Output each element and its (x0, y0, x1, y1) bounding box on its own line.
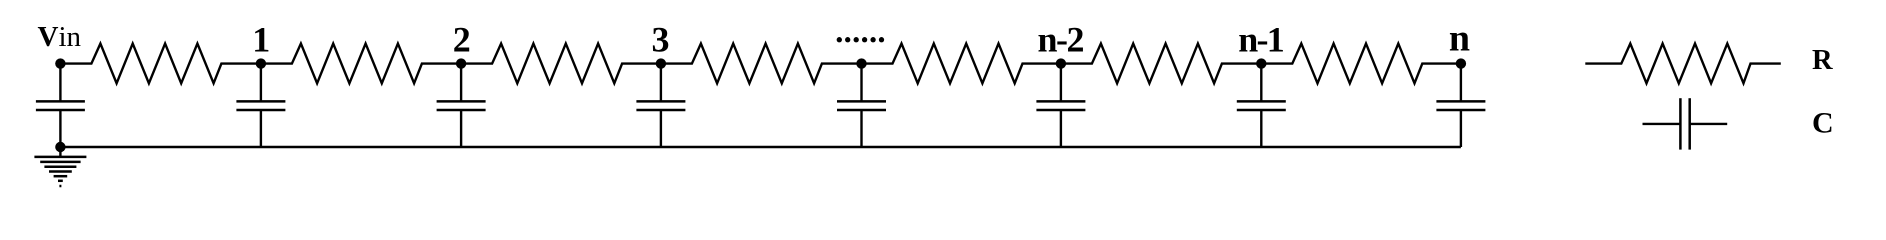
wire node n-1 to C7 (1260, 64, 1262, 102)
svg-text:Vin: Vin (38, 21, 82, 53)
wire node n to C8 (1460, 64, 1462, 102)
wire C3 to ground rail (460, 110, 462, 147)
wire C2 to ground rail (260, 110, 262, 147)
resistor R2 (261, 44, 461, 84)
node 2 junction dot (456, 58, 466, 68)
capacitor C2 (236, 101, 285, 110)
wire C5 to ground rail (860, 110, 862, 147)
node n-2 junction dot (1056, 58, 1066, 68)
svg-text:1: 1 (252, 19, 270, 59)
resistor R6 (1061, 44, 1261, 84)
label dots (......) (837, 37, 885, 42)
resistor R7 (1261, 44, 1461, 84)
wire node 2 to C3 (460, 64, 462, 102)
resistor R5 (862, 44, 1061, 84)
wire ground rail (60, 146, 1461, 149)
wire node n-2 to C6 (1060, 64, 1062, 102)
capacitor C3 (437, 101, 486, 110)
wire C1 to ground rail (59, 110, 61, 147)
node Vin junction dot (55, 58, 65, 68)
capacitor C4 (636, 101, 685, 110)
resistor R3 (461, 44, 661, 84)
wire C7 to ground rail (1260, 110, 1262, 147)
wire node 1 to C2 (260, 64, 262, 102)
svg-text:2: 2 (453, 19, 471, 59)
capacitor C7 (1237, 101, 1286, 110)
wire node Vin to C1 (59, 64, 61, 102)
node 1 junction dot (256, 58, 266, 68)
wire C4 to ground rail (660, 110, 662, 147)
ground (34, 147, 86, 186)
resistor R1 (60, 44, 261, 84)
node n-1 junction dot (1256, 58, 1266, 68)
svg-text:n: n (1449, 18, 1470, 60)
wire C6 to ground rail (1060, 110, 1062, 147)
svg-text:n-2: n-2 (1038, 19, 1084, 59)
wire C8 to ground rail (1460, 110, 1462, 147)
svg-text:C: C (1812, 107, 1834, 140)
capacitor C8 (1436, 101, 1485, 110)
capacitor C1 (36, 101, 85, 110)
resistor R4 (661, 44, 862, 84)
capacitor C5 (837, 101, 886, 110)
svg-text:3: 3 (652, 19, 670, 59)
node ground junction dot (55, 142, 65, 152)
node dots junction dot (856, 58, 866, 68)
svg-text:R: R (1812, 45, 1833, 76)
svg-text:n-1: n-1 (1238, 19, 1283, 59)
wire node dots to C5 (860, 64, 862, 102)
node n junction dot (1456, 58, 1466, 68)
capacitor C legend symbol (1643, 98, 1728, 149)
capacitor C6 (1036, 101, 1085, 110)
wire node 3 to C4 (660, 64, 662, 102)
node 3 junction dot (656, 58, 666, 68)
resistor R legend symbol (1585, 44, 1781, 84)
